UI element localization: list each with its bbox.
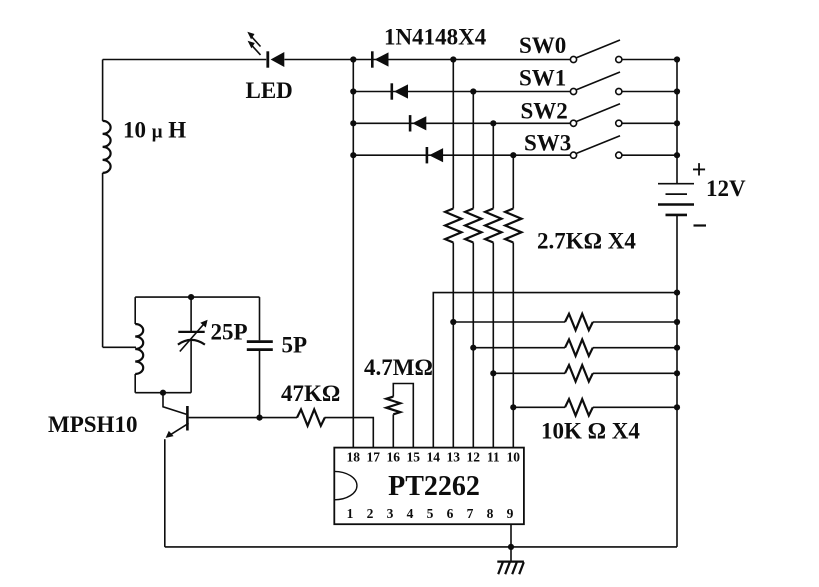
wire row SW0 left segment (bus to switch) [353, 59, 570, 61]
diode D2 1N4148 (cathode bar + left-pointing triangle) [391, 83, 409, 99]
wire 4.7M bridge to pin 15 [393, 384, 413, 448]
resistor R4 2.7K [505, 209, 521, 243]
ground [497, 547, 524, 574]
svg-text:MPSH10: MPSH10 [48, 412, 137, 437]
svg-text:3: 3 [387, 506, 394, 521]
wire column pin11 lower [492, 243, 494, 448]
wire 10K row 4 right [593, 406, 677, 408]
capacitor C1 25P variable [178, 320, 208, 352]
svg-text:10: 10 [507, 450, 521, 465]
wire column pin12 upper [472, 92, 474, 209]
wire 10K row 3 right [593, 372, 677, 374]
svg-text:11: 11 [487, 450, 500, 465]
wire row SW1 left segment (bus to switch) [353, 91, 570, 93]
node tank bottom / base [160, 390, 166, 396]
wire 47K to pin 17 [325, 418, 374, 448]
wire tank top [135, 296, 259, 298]
wire column pin10 lower [512, 243, 514, 448]
node 10K row4 right [674, 404, 680, 410]
svg-text:1: 1 [347, 506, 354, 521]
svg-text:+: + [692, 155, 707, 184]
wire 10K row 3 left [493, 372, 565, 374]
node bus-left row0 [350, 56, 356, 62]
resistor R3 2.7K [485, 209, 501, 243]
wire base connection [163, 393, 186, 415]
wire top horizontal from left corner to LED [103, 59, 267, 61]
wire column pin13 upper [452, 60, 454, 209]
node col0 top [450, 56, 456, 62]
resistor R9 47K [297, 409, 325, 425]
node bus-right row2 [674, 120, 680, 126]
svg-text:15: 15 [407, 450, 421, 465]
wire row SW2 left segment (bus to switch) [353, 122, 570, 124]
wire 10K row 1 right [593, 321, 677, 323]
resistor R1 2.7K [445, 209, 461, 243]
svg-text:5: 5 [427, 506, 434, 521]
node 10K row2 left [470, 345, 476, 351]
wire LED to main bus [285, 59, 354, 61]
node 10K row2 right [674, 345, 680, 351]
diode D3 1N4148 (cathode bar + left-pointing triangle) [409, 115, 427, 131]
wire right bus lower (battery - to bottom rail) [676, 216, 678, 547]
node col3 top [510, 152, 516, 158]
resistor R2 2.7K [465, 209, 481, 243]
wire 4.7M to pin 16 below [392, 414, 394, 447]
U1 pin-1 notch [334, 471, 357, 499]
wire row SW0 right segment (switch to right bus) [622, 59, 677, 61]
resistor R10 4.7M [386, 397, 400, 415]
svg-text:4: 4 [407, 506, 414, 521]
svg-text:16: 16 [387, 450, 401, 465]
svg-text:10K Ω X4: 10K Ω X4 [541, 419, 640, 444]
node 10K row3 left [490, 370, 496, 376]
wire column pin10 upper [512, 155, 514, 208]
op-amp U1 PT2262 encoder IC body [334, 448, 524, 525]
wire row SW3 left segment (bus to switch) [353, 154, 570, 156]
resistor R5 10K [565, 314, 593, 330]
node bus-right row3 [674, 152, 680, 158]
svg-text:2: 2 [367, 506, 374, 521]
wire bottom ground rail [165, 546, 677, 548]
inductor L2 tank coil [135, 324, 143, 374]
node bus-left row1 [350, 88, 356, 94]
wire 5P column bottom [259, 351, 261, 418]
node bus-right row0 [674, 56, 680, 62]
wire emitter vertical [164, 439, 166, 547]
wire pin 9 stub [510, 524, 512, 547]
svg-text:9: 9 [507, 506, 514, 521]
svg-text:SW0: SW0 [519, 33, 566, 58]
wire 10K row 2 right [593, 347, 677, 349]
wire column pin11 upper [492, 123, 494, 208]
node 10K row1 left [450, 319, 456, 325]
diode D1 1N4148 (cathode bar + left-pointing triangle) [371, 51, 389, 67]
wire left vertical lower (10uH to coil tap) [102, 173, 104, 347]
wire row SW3 right segment (switch to right bus) [622, 154, 677, 156]
wire left vertical upper (corner to 10uH) [102, 60, 104, 121]
transistor Q1 MPSH10 [166, 406, 189, 438]
svg-text:4.7MΩ: 4.7MΩ [364, 355, 433, 380]
svg-text:SW1: SW1 [519, 66, 566, 91]
resistor R6 10K [565, 340, 593, 356]
node bus-right row1 [674, 88, 680, 94]
svg-text:PT2262: PT2262 [388, 471, 480, 502]
svg-text:8: 8 [487, 506, 494, 521]
node 10K row1 right [674, 319, 680, 325]
wire column pin13 lower [452, 243, 454, 448]
wire row SW2 right segment (switch to right bus) [622, 122, 677, 124]
svg-text:1N4148X4: 1N4148X4 [384, 25, 487, 50]
svg-text:SW2: SW2 [521, 99, 568, 124]
wire rail to pin 14 [433, 293, 677, 448]
node bus-left row3 [350, 152, 356, 158]
svg-text:13: 13 [447, 450, 461, 465]
node ground node [508, 544, 514, 550]
svg-text:5P: 5P [282, 333, 308, 358]
label battery minus [694, 224, 707, 226]
svg-text:18: 18 [347, 450, 361, 465]
label top pin numbers 18-10 [347, 450, 521, 465]
resistor R7 10K [565, 365, 593, 381]
switch SW1 [570, 72, 622, 95]
node tank top [188, 294, 194, 300]
svg-text:12: 12 [467, 450, 481, 465]
svg-text:7: 7 [467, 506, 474, 521]
svg-text:17: 17 [367, 450, 381, 465]
inductor L1 10uH [103, 121, 111, 173]
label bottom pin numbers 1-9 [347, 506, 514, 521]
svg-text:6: 6 [447, 506, 454, 521]
node 10K row4 left [510, 404, 516, 410]
wire tank left vertical bottom [134, 374, 136, 393]
switch SW0 [570, 40, 622, 63]
node col1 top [470, 88, 476, 94]
wire right bus upper (switches to battery +) [676, 60, 678, 184]
svg-text:14: 14 [427, 450, 441, 465]
resistor R8 10K [565, 399, 593, 415]
svg-text:10 μ H: 10 μ H [123, 118, 186, 143]
wire 25P column top [190, 297, 192, 331]
wire main bus vertical to pin 18 [352, 60, 354, 448]
svg-text:12V: 12V [706, 176, 746, 201]
svg-text:LED: LED [246, 78, 293, 103]
battery B1 12V [658, 184, 694, 215]
node col2 top [490, 120, 496, 126]
switch SW2 [570, 104, 622, 127]
wire 5P column top [259, 297, 261, 340]
diode D4 1N4148 (cathode bar + left-pointing triangle) [426, 147, 444, 163]
wire 25P column bottom [190, 341, 192, 393]
svg-text:47KΩ: 47KΩ [281, 381, 340, 406]
node rail right [674, 290, 680, 296]
wire coil tap horizontal [103, 346, 136, 348]
wire 10K row 2 left [473, 347, 565, 349]
svg-text:2.7KΩ X4: 2.7KΩ X4 [537, 229, 636, 254]
wire row SW1 right segment (switch to right bus) [622, 91, 677, 93]
switch SW3 [570, 136, 622, 159]
svg-text:SW3: SW3 [524, 131, 571, 156]
wire 10K row 4 left [513, 406, 565, 408]
node bus-left row2 [350, 120, 356, 126]
wire 10K row 1 left [453, 321, 565, 323]
wire tank left vertical top [134, 297, 136, 324]
wire collector to 47K [189, 417, 297, 419]
capacitor C2 5P [247, 342, 273, 350]
svg-text:25P: 25P [211, 320, 248, 345]
LED D5 [247, 32, 284, 68]
wire column pin12 lower [472, 243, 474, 448]
wire tank bottom [135, 392, 191, 394]
node collector / 5P [256, 415, 262, 421]
node 10K row3 right [674, 370, 680, 376]
